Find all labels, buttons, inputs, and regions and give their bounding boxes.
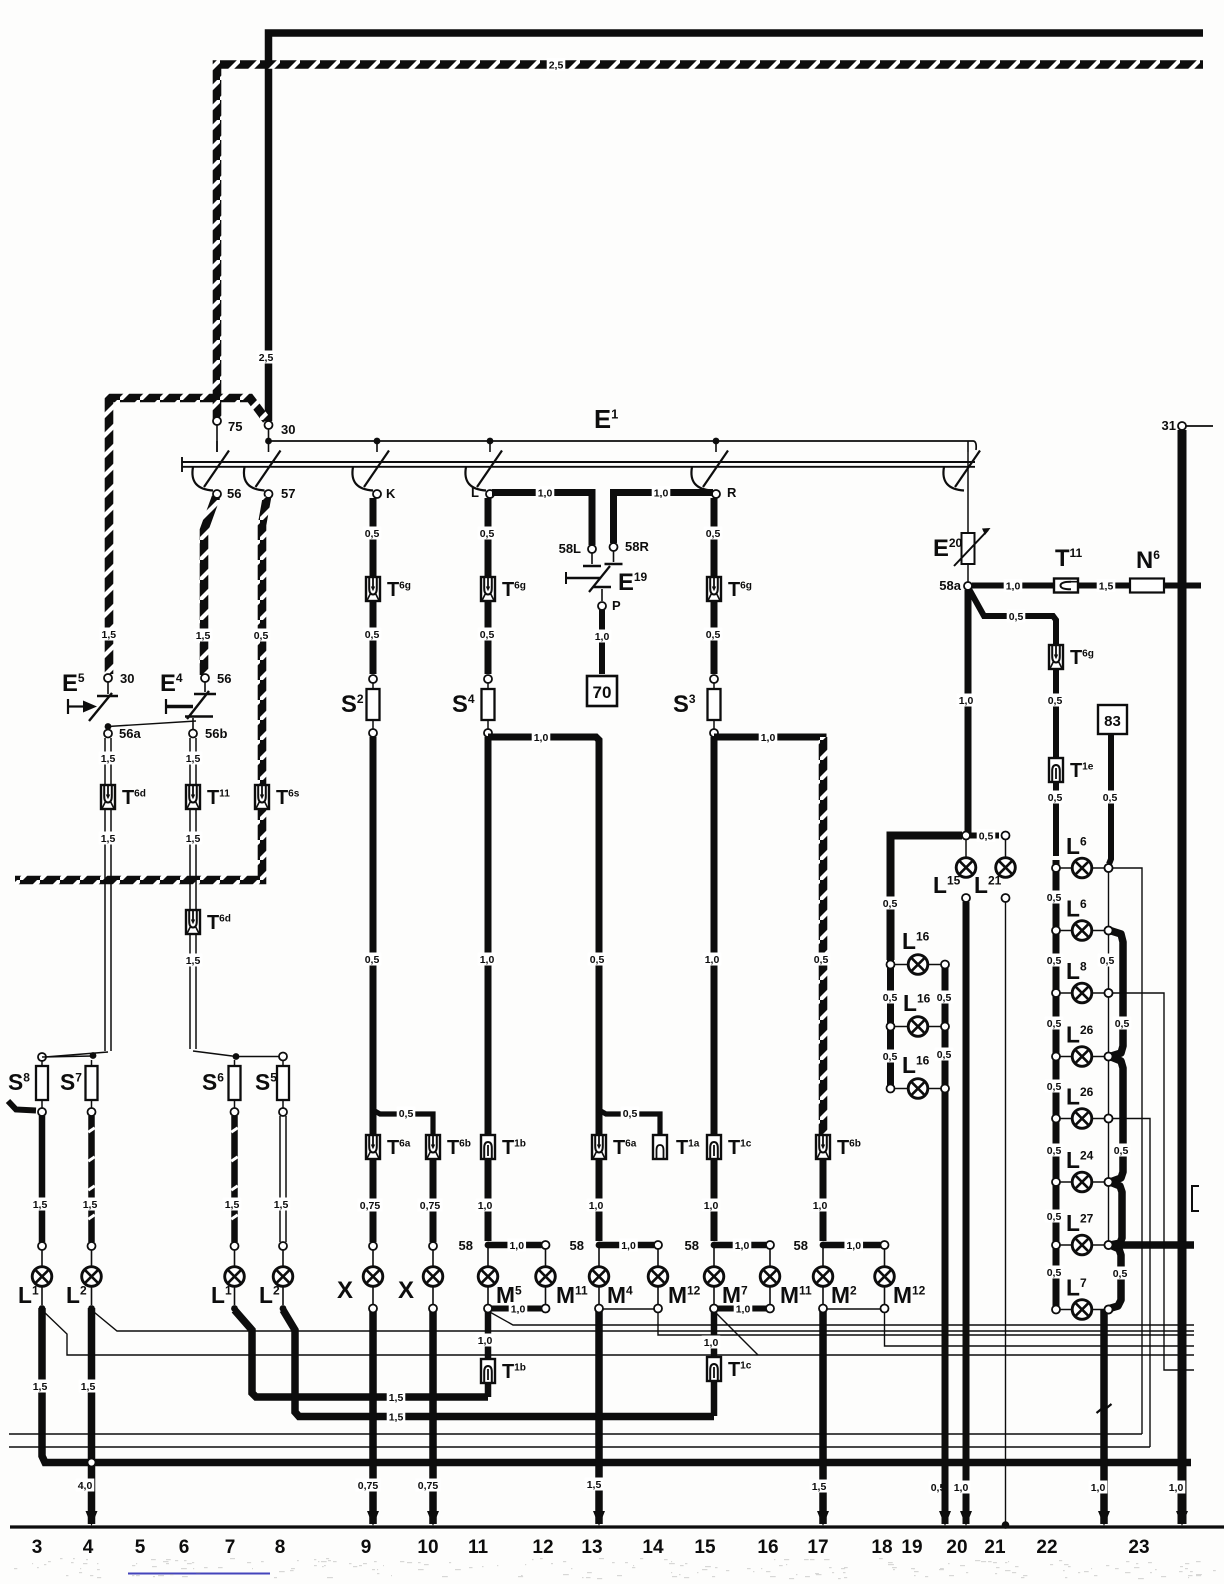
svg-text:1,5: 1,5 bbox=[33, 1381, 48, 1393]
svg-text:0,5: 0,5 bbox=[1009, 611, 1024, 623]
svg-text:3: 3 bbox=[32, 1537, 43, 1558]
svg-text:56: 56 bbox=[217, 671, 231, 686]
svg-text:K: K bbox=[386, 486, 396, 501]
svg-text:0,5: 0,5 bbox=[1048, 792, 1063, 804]
svg-text:0,5: 0,5 bbox=[254, 630, 269, 642]
svg-text:9: 9 bbox=[361, 1537, 372, 1558]
svg-text:1,5: 1,5 bbox=[186, 955, 201, 967]
svg-text:19: 19 bbox=[901, 1537, 922, 1558]
svg-text:0,5: 0,5 bbox=[480, 629, 495, 641]
svg-text:0,5: 0,5 bbox=[480, 528, 495, 540]
svg-text:0,5: 0,5 bbox=[979, 831, 994, 843]
svg-text:58: 58 bbox=[570, 1238, 584, 1253]
svg-text:0,5: 0,5 bbox=[937, 1049, 952, 1061]
svg-text:1,0: 1,0 bbox=[509, 1240, 524, 1252]
svg-text:0,5: 0,5 bbox=[1047, 1018, 1062, 1030]
svg-text:1,5: 1,5 bbox=[812, 1481, 827, 1493]
svg-text:1,0: 1,0 bbox=[959, 695, 974, 707]
svg-text:4,0: 4,0 bbox=[78, 1480, 93, 1492]
svg-text:0,5: 0,5 bbox=[365, 528, 380, 540]
svg-text:56: 56 bbox=[227, 486, 241, 501]
svg-text:11: 11 bbox=[468, 1537, 489, 1558]
svg-text:X: X bbox=[337, 1277, 353, 1304]
svg-text:0,5: 0,5 bbox=[399, 1108, 414, 1120]
svg-text:1,0: 1,0 bbox=[478, 1200, 493, 1212]
svg-text:R: R bbox=[727, 485, 737, 500]
svg-text:0,5: 0,5 bbox=[1047, 955, 1062, 967]
svg-text:0,5: 0,5 bbox=[814, 954, 829, 966]
svg-text:0,5: 0,5 bbox=[1100, 955, 1115, 967]
svg-text:1,5: 1,5 bbox=[186, 753, 201, 765]
svg-text:23: 23 bbox=[1128, 1537, 1149, 1558]
svg-text:75: 75 bbox=[228, 419, 242, 434]
svg-text:0,5: 0,5 bbox=[1047, 1211, 1062, 1223]
svg-text:2,5: 2,5 bbox=[549, 60, 564, 72]
svg-text:58: 58 bbox=[459, 1238, 473, 1253]
svg-text:0,5: 0,5 bbox=[883, 992, 898, 1004]
svg-text:10: 10 bbox=[417, 1537, 438, 1558]
svg-text:1,0: 1,0 bbox=[478, 1335, 493, 1347]
svg-text:1,5: 1,5 bbox=[389, 1412, 404, 1424]
svg-text:1,0: 1,0 bbox=[1169, 1482, 1184, 1494]
svg-text:1,0: 1,0 bbox=[1006, 581, 1021, 593]
svg-text:58: 58 bbox=[685, 1238, 699, 1253]
svg-text:L: L bbox=[471, 485, 479, 500]
svg-text:1,0: 1,0 bbox=[538, 488, 553, 500]
svg-text:0,5: 0,5 bbox=[1047, 1081, 1062, 1093]
svg-text:30: 30 bbox=[120, 671, 134, 686]
svg-text:0,5: 0,5 bbox=[1113, 1268, 1128, 1280]
svg-text:1,0: 1,0 bbox=[589, 1200, 604, 1212]
svg-text:0,5: 0,5 bbox=[1048, 695, 1063, 707]
svg-text:1,0: 1,0 bbox=[511, 1304, 526, 1316]
svg-text:0,75: 0,75 bbox=[358, 1480, 379, 1492]
svg-text:1,5: 1,5 bbox=[186, 833, 201, 845]
svg-text:P: P bbox=[612, 598, 621, 613]
svg-text:1,0: 1,0 bbox=[813, 1200, 828, 1212]
svg-text:1,5: 1,5 bbox=[101, 753, 116, 765]
svg-text:0,5: 0,5 bbox=[623, 1108, 638, 1120]
svg-text:5: 5 bbox=[135, 1537, 146, 1558]
svg-text:58: 58 bbox=[794, 1238, 808, 1253]
svg-text:1,5: 1,5 bbox=[196, 630, 211, 642]
svg-text:1,0: 1,0 bbox=[954, 1482, 969, 1494]
svg-text:22: 22 bbox=[1036, 1537, 1057, 1558]
svg-text:0,5: 0,5 bbox=[883, 898, 898, 910]
svg-text:8: 8 bbox=[275, 1537, 286, 1558]
svg-text:16: 16 bbox=[757, 1537, 778, 1558]
svg-text:0,5: 0,5 bbox=[1114, 1145, 1129, 1157]
svg-text:0,5: 0,5 bbox=[590, 954, 605, 966]
svg-text:1,5: 1,5 bbox=[101, 833, 116, 845]
svg-text:0,75: 0,75 bbox=[420, 1200, 441, 1212]
svg-text:17: 17 bbox=[807, 1537, 828, 1558]
svg-text:1,5: 1,5 bbox=[225, 1199, 240, 1211]
svg-text:21: 21 bbox=[984, 1537, 1006, 1558]
svg-text:0,5: 0,5 bbox=[937, 992, 952, 1004]
svg-text:1,5: 1,5 bbox=[33, 1199, 48, 1211]
svg-text:0,75: 0,75 bbox=[418, 1480, 439, 1492]
svg-text:6: 6 bbox=[179, 1537, 190, 1558]
svg-text:58L: 58L bbox=[559, 541, 581, 556]
svg-text:18: 18 bbox=[871, 1537, 892, 1558]
svg-text:0,5: 0,5 bbox=[1047, 1267, 1062, 1279]
svg-text:58R: 58R bbox=[625, 539, 649, 554]
svg-text:0,5: 0,5 bbox=[706, 528, 721, 540]
svg-text:1,0: 1,0 bbox=[735, 1240, 750, 1252]
svg-text:20: 20 bbox=[946, 1537, 967, 1558]
svg-text:1,5: 1,5 bbox=[101, 629, 116, 641]
svg-text:1,0: 1,0 bbox=[704, 1200, 719, 1212]
svg-text:X: X bbox=[398, 1277, 414, 1304]
svg-text:1,0: 1,0 bbox=[654, 488, 669, 500]
svg-text:58a: 58a bbox=[939, 578, 961, 593]
svg-text:56a: 56a bbox=[119, 726, 141, 741]
svg-text:57: 57 bbox=[281, 486, 295, 501]
svg-text:0,5: 0,5 bbox=[883, 1051, 898, 1063]
svg-text:1,0: 1,0 bbox=[736, 1304, 751, 1316]
svg-text:1,5: 1,5 bbox=[1099, 581, 1114, 593]
svg-text:0,5: 0,5 bbox=[1047, 1145, 1062, 1157]
svg-text:1,5: 1,5 bbox=[587, 1479, 602, 1491]
svg-text:1,5: 1,5 bbox=[81, 1381, 96, 1393]
svg-text:0,5: 0,5 bbox=[1103, 792, 1118, 804]
svg-text:0,5: 0,5 bbox=[1047, 892, 1062, 904]
svg-text:1,0: 1,0 bbox=[534, 732, 549, 744]
svg-text:70: 70 bbox=[593, 683, 612, 702]
svg-text:0,5: 0,5 bbox=[1115, 1018, 1130, 1030]
svg-text:1,0: 1,0 bbox=[595, 631, 610, 643]
svg-text:56b: 56b bbox=[205, 726, 227, 741]
svg-text:0,5: 0,5 bbox=[365, 954, 380, 966]
svg-text:1,0: 1,0 bbox=[621, 1240, 636, 1252]
svg-text:0,5: 0,5 bbox=[706, 629, 721, 641]
svg-text:4: 4 bbox=[83, 1537, 94, 1558]
svg-text:1,0: 1,0 bbox=[480, 954, 495, 966]
svg-text:14: 14 bbox=[642, 1537, 664, 1558]
svg-text:15: 15 bbox=[694, 1537, 716, 1558]
svg-text:1,5: 1,5 bbox=[274, 1199, 289, 1211]
svg-text:83: 83 bbox=[1104, 713, 1121, 730]
svg-text:1,0: 1,0 bbox=[1091, 1482, 1106, 1494]
svg-text:0,5: 0,5 bbox=[365, 629, 380, 641]
svg-text:30: 30 bbox=[281, 422, 295, 437]
svg-text:13: 13 bbox=[581, 1537, 602, 1558]
svg-text:12: 12 bbox=[532, 1537, 553, 1558]
svg-text:1,0: 1,0 bbox=[704, 1337, 719, 1349]
svg-text:1,0: 1,0 bbox=[761, 732, 776, 744]
svg-text:1,0: 1,0 bbox=[846, 1240, 861, 1252]
svg-text:1,5: 1,5 bbox=[83, 1199, 98, 1211]
svg-text:1,0: 1,0 bbox=[705, 954, 720, 966]
svg-text:31: 31 bbox=[1162, 418, 1176, 433]
svg-text:7: 7 bbox=[225, 1537, 236, 1558]
svg-text:1,5: 1,5 bbox=[389, 1392, 404, 1404]
svg-text:0,75: 0,75 bbox=[360, 1200, 381, 1212]
svg-text:2,5: 2,5 bbox=[259, 352, 274, 364]
